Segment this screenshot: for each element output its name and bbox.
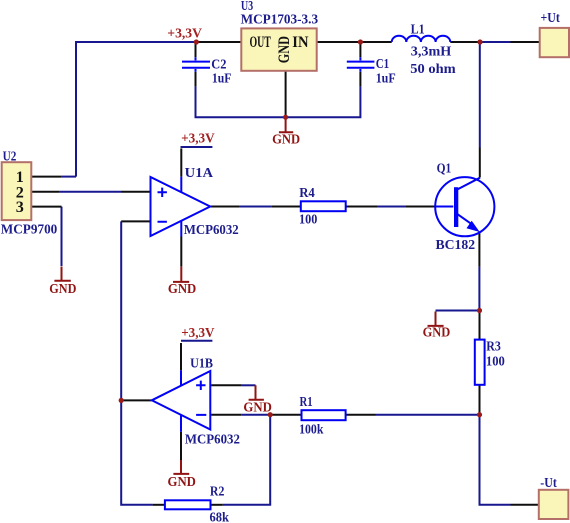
svg-text:GND: GND [423,325,451,340]
svg-text:MCP6032: MCP6032 [185,431,240,446]
svg-text:R3: R3 [486,339,501,354]
svg-text:MCP9700: MCP9700 [1,221,58,236]
svg-text:100: 100 [486,354,505,369]
svg-text:C1: C1 [376,56,390,71]
svg-text:3,3mH: 3,3mH [411,44,452,59]
svg-text:OUT: OUT [250,33,272,51]
svg-text:L1: L1 [411,22,425,37]
svg-text:R2: R2 [210,483,225,498]
svg-text:BC182: BC182 [436,237,476,252]
svg-text:1uF: 1uF [212,71,232,86]
svg-text:100k: 100k [299,421,324,436]
svg-text:GND: GND [168,281,197,296]
svg-text:1uF: 1uF [376,71,396,86]
svg-text:U1B: U1B [190,356,213,371]
svg-text:50 ohm: 50 ohm [410,61,456,76]
svg-text:MCP6032: MCP6032 [184,222,239,237]
svg-text:+3,3V: +3,3V [181,325,215,340]
svg-text:GND: GND [272,131,300,146]
svg-text:+3,3V: +3,3V [181,131,215,146]
svg-text:U2: U2 [3,149,17,164]
svg-text:GND: GND [275,36,293,63]
svg-text:68k: 68k [210,510,230,523]
svg-text:GND: GND [243,400,272,415]
svg-text:GND: GND [49,281,76,296]
svg-text:+Ut: +Ut [541,10,561,25]
svg-text:C2: C2 [211,56,226,71]
svg-text:GND: GND [168,474,197,489]
svg-text:+3,3V: +3,3V [167,25,202,40]
svg-text:IN: IN [292,33,308,51]
svg-text:3: 3 [16,198,24,216]
svg-text:MCP1703-3.3: MCP1703-3.3 [241,11,319,26]
svg-text:Q1: Q1 [437,161,452,176]
svg-text:-Ut: -Ut [540,475,557,490]
svg-text:R1: R1 [300,394,313,409]
svg-text:R4: R4 [299,185,315,200]
svg-text:100: 100 [299,212,318,227]
svg-text:U1A: U1A [185,165,214,180]
